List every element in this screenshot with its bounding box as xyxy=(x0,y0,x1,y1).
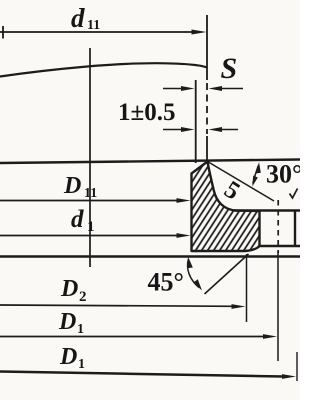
surface finish check mark xyxy=(290,189,298,199)
vertical line at x=90 xyxy=(89,48,91,267)
dimension line d11 xyxy=(0,31,194,33)
svg-text:1: 1 xyxy=(78,357,85,372)
extension line D1 xyxy=(277,251,279,361)
45 degree arc arrow xyxy=(188,260,199,288)
extension line D2 xyxy=(246,254,248,322)
30 degree reference line xyxy=(208,162,275,202)
lower surface line y=256.5 full width xyxy=(0,255,300,257)
arrowhead D1 xyxy=(263,334,277,339)
extension line x=207 dashed middle xyxy=(206,83,208,134)
dimension line D1 xyxy=(0,336,265,338)
svg-text:11: 11 xyxy=(84,186,97,201)
svg-text:d: d xyxy=(71,3,85,33)
flange cross-section (hatched) xyxy=(192,162,260,252)
svg-text:1: 1 xyxy=(77,322,84,337)
svg-text:1: 1 xyxy=(87,219,95,235)
dimension line D1 bottom xyxy=(0,372,284,377)
30 degree arc arrow xyxy=(253,166,258,184)
dimension line D11 xyxy=(0,200,180,202)
arrowhead D1 bottom xyxy=(282,374,296,379)
svg-text:11: 11 xyxy=(87,18,100,33)
dimension line d1 xyxy=(0,235,180,237)
arrowhead d11 right xyxy=(192,30,207,35)
left tick of d11 xyxy=(2,26,4,39)
svg-text:D: D xyxy=(59,344,77,370)
svg-text:D: D xyxy=(60,276,78,302)
svg-text:45°: 45° xyxy=(148,268,184,297)
1±0.5 dimension arrows row y=129.5 xyxy=(163,129,182,131)
bolt hole right wall xyxy=(294,211,296,246)
svg-text:2: 2 xyxy=(79,289,87,305)
svg-text:1±0.5: 1±0.5 xyxy=(118,99,175,126)
extension line x=207 solid top xyxy=(206,15,208,80)
horizontal surface line y=162 full width xyxy=(0,160,300,164)
arrowhead d1 xyxy=(177,233,191,238)
svg-text:30°: 30° xyxy=(266,160,300,189)
short vertical line x=195.7 xyxy=(195,80,197,163)
svg-text:D: D xyxy=(58,309,76,335)
rim top surface curve xyxy=(0,63,207,76)
svg-text:D: D xyxy=(63,173,81,199)
arrowhead D11 xyxy=(177,198,191,203)
bolt hole dashed centerline xyxy=(277,200,279,253)
extension line D1 bottom xyxy=(296,352,298,381)
groove bottom surface line right xyxy=(259,245,300,247)
svg-text:d: d xyxy=(71,206,84,233)
groove top surface line right xyxy=(234,209,300,211)
dimension line D2 xyxy=(0,305,234,306)
S dimension arrows row y=88.5 xyxy=(163,88,182,90)
arrowhead D2 xyxy=(232,304,246,309)
extension line x=207 solid bottom xyxy=(206,136,208,161)
45 degree chamfer reference line xyxy=(205,254,249,294)
svg-text:S: S xyxy=(221,52,238,85)
